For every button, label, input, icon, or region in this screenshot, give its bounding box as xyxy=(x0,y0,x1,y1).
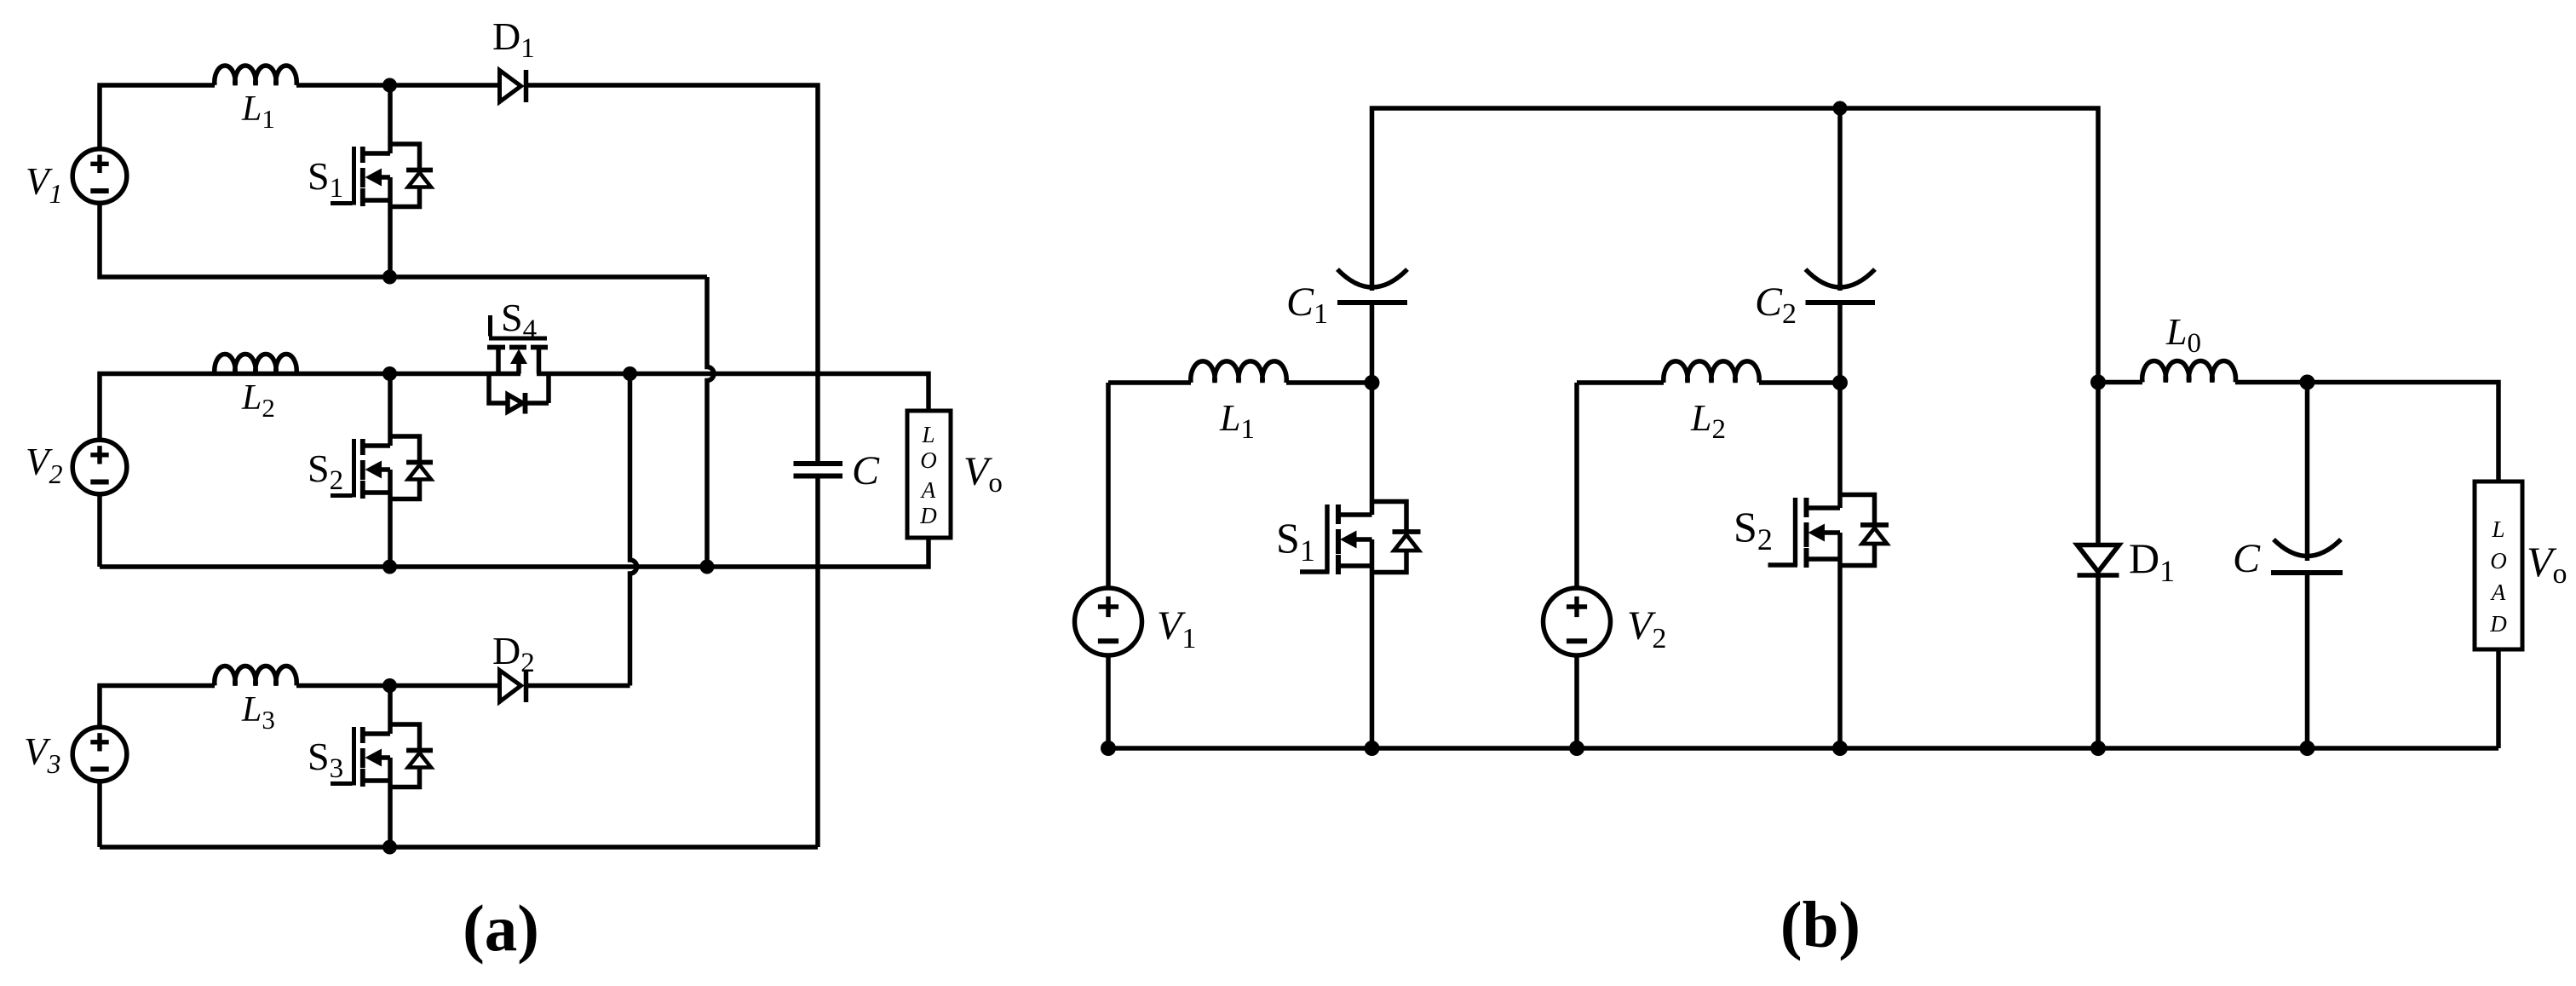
wire top bus (b) xyxy=(1372,108,2099,382)
wire V2 bottom return xyxy=(100,494,929,568)
wire V3 bottom return xyxy=(100,781,818,848)
wire L1 to D1 anode xyxy=(296,83,501,88)
node S2 source bottom (b) xyxy=(1832,741,1848,756)
svg-text:(a): (a) xyxy=(463,891,539,965)
svg-text:(b): (b) xyxy=(1780,888,1860,961)
label LOAD (a) xyxy=(919,422,937,528)
load resistor (a) xyxy=(907,411,951,538)
wire V1 bottom return xyxy=(100,203,707,277)
svg-text:D: D xyxy=(2489,611,2507,637)
wire V1 branch (b) xyxy=(1106,383,1111,748)
wire D2 cathode riser with hop over V2 return xyxy=(526,374,637,686)
voltage source V1 xyxy=(72,149,127,204)
wire V3 top lead xyxy=(100,686,215,728)
wire D1 cathode to output rail corner xyxy=(526,85,819,461)
diode D2 xyxy=(500,670,526,702)
svg-text:D: D xyxy=(919,503,937,528)
svg-text:O: O xyxy=(2490,548,2507,574)
transistor S1 (b) xyxy=(1300,383,1421,748)
transistor S1 xyxy=(331,85,433,277)
node V2 bottom (b) xyxy=(1569,741,1584,756)
svg-text:C: C xyxy=(852,448,880,493)
node V1 bottom (b) xyxy=(1101,741,1116,756)
inductor L1 xyxy=(215,66,296,85)
capacitor C1 xyxy=(1337,269,1407,303)
svg-text:O: O xyxy=(920,447,937,473)
diode D1 (b) xyxy=(2078,383,2119,749)
svg-text:A: A xyxy=(2490,579,2506,605)
node S3 source junction xyxy=(382,840,397,855)
wire L0 row (b) xyxy=(2098,383,2498,482)
wire V1 top lead to L1 xyxy=(100,85,215,149)
node S2 source junction xyxy=(382,560,397,574)
voltage source V3 xyxy=(72,727,127,781)
diode D1 xyxy=(500,70,526,102)
wire C1 to L1 node xyxy=(1370,303,1375,383)
wire bottom bus (b) xyxy=(1108,649,2498,748)
transistor S2 xyxy=(331,374,433,568)
capacitor C2 xyxy=(1806,108,1876,303)
node D1 top junction (b) xyxy=(2090,375,2106,390)
node C2 top junction xyxy=(1833,101,1848,116)
node L1/C1/S1 junction (b) xyxy=(1365,375,1380,390)
svg-text:A: A xyxy=(920,477,936,503)
node S1 drain junction xyxy=(382,78,397,93)
node S2 drain junction xyxy=(382,366,397,381)
svg-text:L: L xyxy=(921,422,934,447)
wire L2 row (b) xyxy=(1577,380,1840,385)
inductor L2 (b) xyxy=(1664,361,1759,383)
node S1 source bottom (b) xyxy=(1365,741,1380,756)
svg-text:C: C xyxy=(2233,536,2261,581)
label LOAD (b) xyxy=(2489,516,2507,637)
node S3 drain junction xyxy=(382,678,397,693)
capacitor C (b) xyxy=(2271,383,2343,749)
wire output rail below C xyxy=(815,478,820,847)
wire V2 branch (b) xyxy=(1574,383,1579,748)
node D2 riser junction xyxy=(623,366,637,381)
node C bottom (b) xyxy=(2300,741,2315,756)
wire S4 drain to load row xyxy=(537,374,929,412)
wire L3 to D2 xyxy=(296,683,501,689)
load resistor (b) xyxy=(2475,481,2522,649)
node S1 source junction xyxy=(382,270,397,285)
node V1 return to V2 row xyxy=(700,560,715,574)
voltage source V2 xyxy=(72,440,127,494)
wire L1 row (b) xyxy=(1108,380,1372,385)
node L2/C2/S2 junction (b) xyxy=(1832,375,1848,390)
node C output junction (b) xyxy=(2300,375,2315,390)
voltage source V1 (b) xyxy=(1075,588,1142,655)
inductor L2 xyxy=(215,354,296,373)
voltage source V2 (b) xyxy=(1544,588,1611,655)
transistor S4 xyxy=(487,315,549,414)
wire C2 to L2 node xyxy=(1837,303,1843,383)
inductor L0 xyxy=(2142,361,2236,383)
capacitor C (output) xyxy=(794,464,843,476)
transistor S3 xyxy=(331,686,433,848)
inductor L3 xyxy=(215,666,296,685)
transistor S2 (b) xyxy=(1768,383,1889,748)
svg-text:L: L xyxy=(2491,516,2504,542)
wire V2 top lead xyxy=(100,374,520,441)
inductor L1 (b) xyxy=(1191,361,1286,383)
node D1 bottom (b) xyxy=(2090,741,2106,756)
wire V1 return riser with hop over S4 row xyxy=(707,277,714,567)
